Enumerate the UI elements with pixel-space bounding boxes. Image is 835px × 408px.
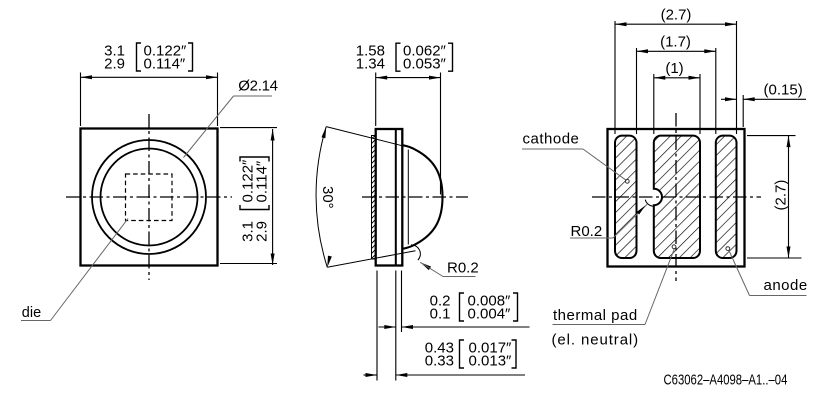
svg-text:(1): (1) (665, 60, 683, 77)
svg-text:(0.15): (0.15) (764, 81, 803, 98)
svg-text:2.9: 2.9 (254, 221, 271, 242)
svg-text:(el. neutral): (el. neutral) (552, 332, 640, 349)
svg-text:(1.7): (1.7) (660, 34, 691, 51)
svg-text:thermal pad: thermal pad (553, 307, 638, 324)
svg-text:0.1: 0.1 (430, 306, 451, 323)
svg-text:(2.7): (2.7) (773, 180, 790, 211)
svg-text:0.013″: 0.013″ (469, 353, 513, 370)
svg-text:R0.2: R0.2 (571, 223, 603, 240)
svg-text:30°: 30° (319, 186, 336, 209)
svg-text:0.004″: 0.004″ (468, 306, 512, 323)
svg-text:R0.2: R0.2 (447, 260, 479, 277)
svg-text:anode: anode (764, 277, 808, 294)
svg-text:Ø2.14: Ø2.14 (238, 78, 277, 95)
svg-text:2.9: 2.9 (104, 56, 125, 73)
svg-text:(2.7): (2.7) (661, 7, 692, 24)
svg-text:die: die (22, 305, 41, 321)
svg-text:0.053″: 0.053″ (403, 56, 447, 73)
svg-text:0.114″: 0.114″ (144, 56, 186, 73)
svg-text:C63062–A4098–A1..–04: C63062–A4098–A1..–04 (664, 371, 788, 388)
svg-text:0.114″: 0.114″ (254, 160, 271, 202)
svg-text:1.34: 1.34 (356, 56, 385, 73)
svg-text:0.33: 0.33 (425, 353, 454, 370)
svg-text:cathode: cathode (523, 131, 580, 148)
